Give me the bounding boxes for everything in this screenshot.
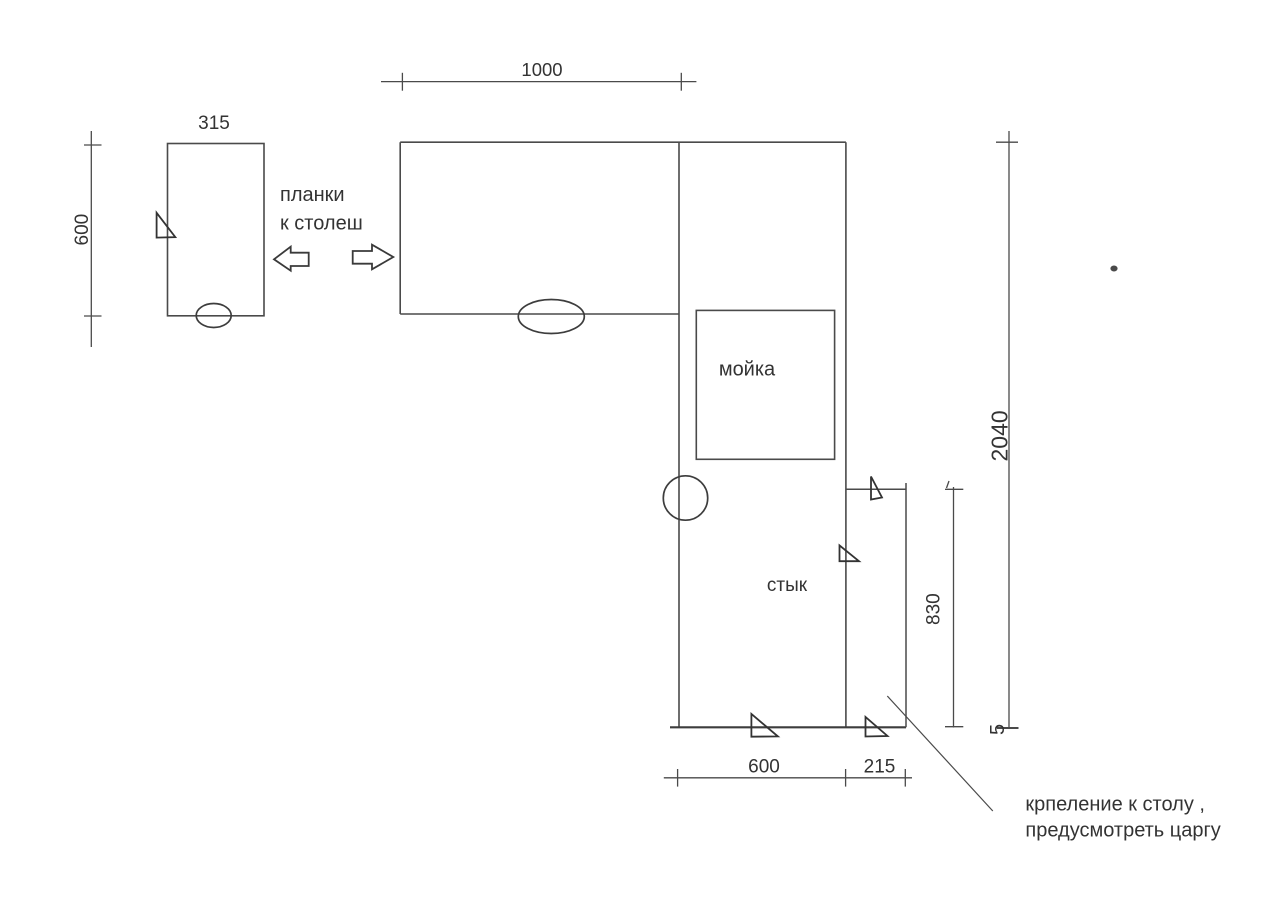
clamp triangle on leg bottom edge: [751, 714, 778, 737]
svg-text:1000: 1000: [521, 59, 562, 80]
small dot mark: [1110, 266, 1117, 272]
svg-text:планки: планки: [280, 184, 345, 206]
block arrow pointing right: [353, 245, 394, 270]
side strip top edge: [846, 488, 906, 490]
svg-text:600: 600: [72, 214, 93, 246]
dimension 1000 line: [381, 73, 696, 91]
side strip right edge: [905, 483, 907, 727]
svg-text:600: 600: [748, 757, 780, 778]
svg-text:к столеш: к столеш: [280, 213, 363, 235]
left edge of horizontal part: [399, 142, 401, 314]
top edge: [400, 141, 846, 143]
svg-text:830: 830: [924, 593, 945, 625]
svg-text:крпеление к столу ,: крпеление к столу ,: [1025, 794, 1205, 816]
divider / left edge of vertical leg: [678, 142, 680, 727]
svg-text:2040: 2040: [987, 410, 1013, 461]
L-shaped countertop outline: [400, 142, 846, 727]
bottom edge of horizontal part: [400, 313, 679, 315]
right edge of vertical leg: [845, 142, 847, 727]
circle marker on leg left edge: [663, 476, 707, 520]
leader line to note: [887, 696, 993, 811]
clamp triangle on strip bottom edge: [866, 717, 888, 737]
clamp triangle on small rect left edge: [157, 213, 176, 238]
svg-text:мойка: мойка: [719, 359, 776, 381]
small tick mark above 830 top: [947, 481, 950, 488]
clamp triangle on leg right edge: [840, 545, 860, 561]
dimension 600 line: [84, 131, 102, 347]
svg-text:5: 5: [987, 724, 1009, 735]
sink square мойка: [696, 310, 834, 459]
bottom edge of vertical leg: [670, 726, 906, 728]
svg-text:стык: стык: [767, 575, 808, 596]
svg-text:215: 215: [864, 757, 896, 778]
svg-text:315: 315: [198, 113, 230, 134]
dimension 2040 line: [996, 131, 1019, 728]
clamp triangle at strip top: [871, 477, 882, 500]
svg-text:предусмотреть царгу: предусмотреть царгу: [1025, 820, 1220, 842]
block arrow pointing left: [274, 247, 309, 271]
small countertop rectangle: [168, 144, 265, 316]
bottom dimension line 600 / 215: [664, 769, 912, 787]
ellipse marker on small rect bottom: [196, 304, 231, 328]
ellipse marker on horizontal part bottom edge: [518, 300, 584, 334]
dimension 830 line: [945, 481, 963, 728]
